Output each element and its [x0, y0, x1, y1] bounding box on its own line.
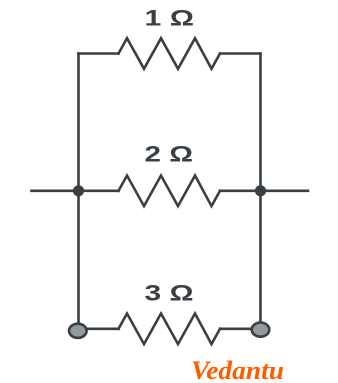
- node B (right junction): [255, 185, 266, 196]
- wire left rail: [77, 54, 80, 323]
- wire middle left lead: [32, 190, 119, 193]
- wire top-right from R1 to right rail: [220, 52, 261, 55]
- wire right rail: [259, 54, 262, 323]
- wire bottom left lead: [87, 327, 119, 330]
- wire bottom right lead: [220, 327, 252, 330]
- svg-text:2 Ω: 2 Ω: [145, 141, 194, 166]
- terminal right (open dot): [252, 323, 270, 337]
- svg-text:1 Ω: 1 Ω: [145, 5, 195, 30]
- svg-text:3 Ω: 3 Ω: [145, 281, 194, 306]
- wire top-left from left rail to R1: [79, 52, 119, 55]
- resistor R3: [119, 314, 221, 345]
- node A (left junction): [73, 185, 84, 196]
- wire middle right lead: [220, 190, 308, 193]
- terminal left (open dot): [69, 324, 87, 338]
- resistor R1: [119, 38, 221, 69]
- svg-text:Vedantu: Vedantu: [191, 356, 284, 383]
- resistor R2: [119, 176, 221, 207]
